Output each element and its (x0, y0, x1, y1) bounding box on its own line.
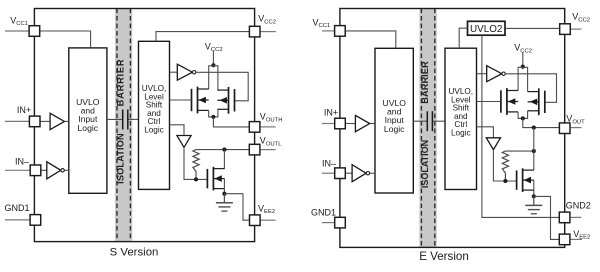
svg-text:GND1: GND1 (311, 207, 336, 217)
svg-text:IN+: IN+ (324, 108, 338, 118)
svg-text:Logic: Logic (384, 124, 405, 134)
svg-text:IN+: IN+ (17, 105, 31, 115)
svg-text:BARRIER: BARRIER (420, 61, 430, 104)
svg-text:IN–: IN– (322, 159, 336, 169)
svg-text:S Version: S Version (110, 246, 159, 258)
svg-text:ISOLATION: ISOLATION (116, 133, 126, 184)
svg-text:Logic: Logic (144, 126, 164, 135)
svg-text:Logic: Logic (78, 123, 99, 133)
svg-text:IN–: IN– (15, 157, 29, 167)
svg-text:Logic: Logic (451, 129, 471, 138)
svg-text:GND1: GND1 (5, 203, 30, 213)
svg-text:E Version: E Version (419, 250, 469, 263)
svg-text:BARRIER: BARRIER (116, 59, 126, 107)
svg-text:UVLO2: UVLO2 (470, 24, 502, 35)
svg-text:ISOLATION: ISOLATION (420, 140, 430, 188)
svg-text:GND2: GND2 (566, 201, 591, 211)
